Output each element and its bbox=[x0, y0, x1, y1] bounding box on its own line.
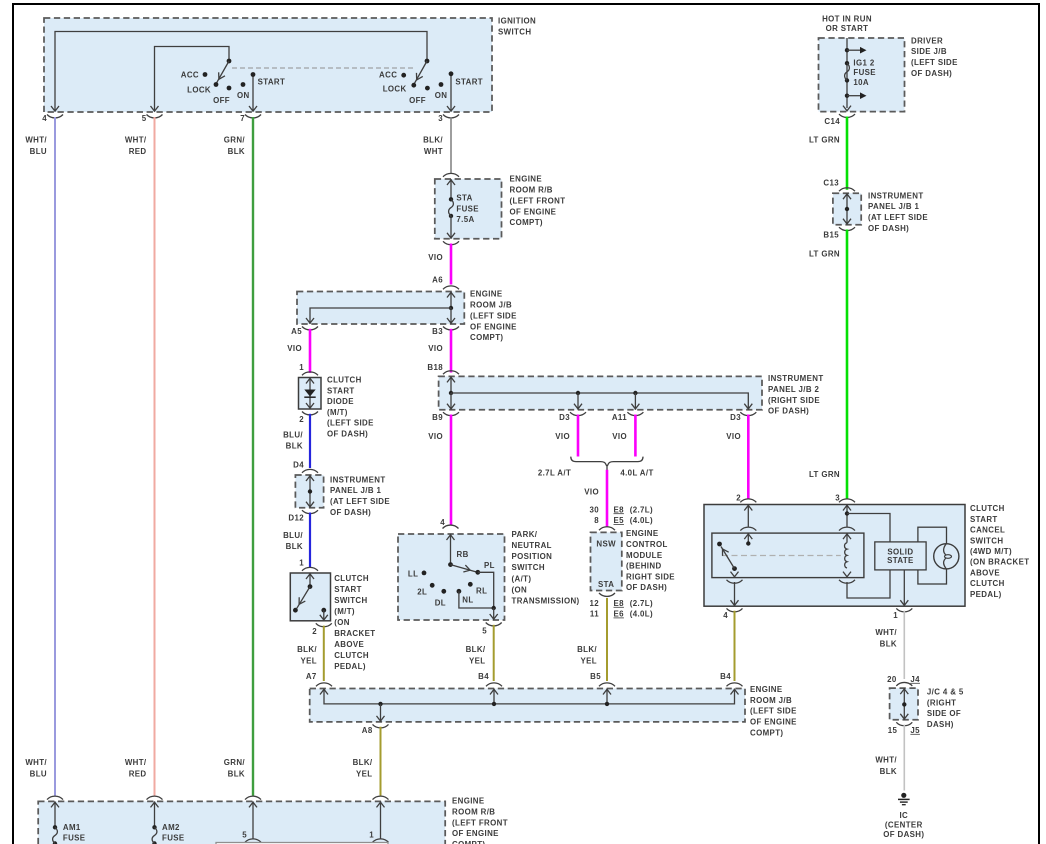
svg-text:11: 11 bbox=[590, 610, 599, 619]
svg-text:OFF: OFF bbox=[409, 96, 426, 105]
svg-text:VIO: VIO bbox=[555, 432, 570, 441]
svg-text:ROOM J/B: ROOM J/B bbox=[750, 696, 792, 705]
svg-text:CLUTCH: CLUTCH bbox=[334, 574, 369, 583]
starter relay box bbox=[216, 843, 388, 844]
svg-text:PANEL J/B 2: PANEL J/B 2 bbox=[768, 385, 819, 394]
svg-text:J/C 4 & 5: J/C 4 & 5 bbox=[927, 687, 964, 696]
svg-text:ON: ON bbox=[435, 91, 448, 100]
instrument panel J/B 1 upper box bbox=[833, 191, 928, 233]
svg-text:START: START bbox=[327, 386, 355, 395]
svg-text:BRACKET: BRACKET bbox=[334, 629, 375, 638]
svg-text:CONTROL: CONTROL bbox=[626, 540, 668, 549]
engine control module box bbox=[591, 527, 675, 592]
svg-text:ENGINE: ENGINE bbox=[510, 175, 543, 184]
svg-text:BLK/: BLK/ bbox=[423, 136, 443, 145]
svg-text:C14: C14 bbox=[824, 117, 840, 126]
driver side J/B box bbox=[819, 36, 958, 111]
wire WHT/BLK cancel switch pin1 to J/C bbox=[875, 608, 912, 679]
svg-text:(LEFT FRONT: (LEFT FRONT bbox=[452, 818, 508, 827]
svg-text:(M/T): (M/T) bbox=[334, 607, 355, 616]
connector B9 bbox=[428, 412, 459, 441]
indicator lamp bbox=[934, 544, 959, 569]
svg-text:FUSE: FUSE bbox=[456, 204, 479, 213]
svg-text:OF DASH): OF DASH) bbox=[883, 830, 924, 839]
svg-text:INSTRUMENT: INSTRUMENT bbox=[868, 191, 924, 200]
connector C14 bbox=[824, 114, 855, 126]
svg-text:MODULE: MODULE bbox=[626, 551, 662, 560]
clutch start cancel switch box bbox=[704, 494, 1029, 607]
svg-text:2: 2 bbox=[736, 494, 741, 503]
svg-text:WHT: WHT bbox=[424, 147, 443, 156]
lamp supply loop bbox=[918, 527, 947, 584]
svg-text:BLU/: BLU/ bbox=[283, 431, 303, 440]
svg-text:FUSE: FUSE bbox=[63, 833, 86, 842]
svg-text:(ON: (ON bbox=[334, 618, 350, 627]
svg-text:B4: B4 bbox=[720, 672, 731, 681]
svg-text:30: 30 bbox=[589, 505, 599, 514]
svg-text:FUSE: FUSE bbox=[162, 833, 185, 842]
svg-text:7: 7 bbox=[240, 114, 245, 123]
wire BLK/YEL P/N switch pin5 to B4 bbox=[466, 623, 502, 682]
svg-text:DL: DL bbox=[435, 598, 446, 607]
svg-text:BLK/: BLK/ bbox=[577, 645, 597, 654]
svg-text:COMPT): COMPT) bbox=[470, 333, 503, 342]
svg-text:VIO: VIO bbox=[428, 344, 443, 353]
cancel switch pin4 internal lead bbox=[727, 572, 743, 607]
svg-text:B4: B4 bbox=[478, 672, 489, 681]
svg-text:3: 3 bbox=[438, 114, 443, 123]
svg-text:OF DASH): OF DASH) bbox=[868, 224, 909, 233]
svg-text:A11: A11 bbox=[612, 413, 627, 422]
wire ignition feed to right pole bbox=[55, 32, 427, 112]
engine room J/B upper box bbox=[297, 286, 517, 342]
svg-text:COMPT): COMPT) bbox=[452, 840, 485, 844]
svg-text:OF DASH): OF DASH) bbox=[626, 583, 667, 592]
svg-text:GRN/: GRN/ bbox=[224, 758, 246, 767]
connector A11 bbox=[612, 412, 644, 441]
svg-text:BLK: BLK bbox=[286, 542, 303, 551]
svg-text:D3: D3 bbox=[730, 413, 741, 422]
wire ignition feed to left pole bbox=[155, 47, 230, 112]
connector B15 bbox=[823, 227, 855, 239]
svg-text:7.5A: 7.5A bbox=[456, 215, 474, 224]
svg-text:OF ENGINE: OF ENGINE bbox=[750, 718, 797, 727]
wire WHT/BLU pin4 to AM1 fuse bbox=[25, 117, 55, 796]
svg-text:YEL: YEL bbox=[581, 657, 598, 666]
connector D3 left bbox=[555, 412, 586, 441]
svg-text:BLK: BLK bbox=[880, 640, 897, 649]
svg-text:BLU: BLU bbox=[30, 770, 47, 779]
mechanical linkage dashed line bbox=[232, 67, 414, 69]
brace 2.7L / 4.0L bbox=[538, 457, 654, 478]
svg-text:NSW: NSW bbox=[596, 540, 616, 549]
wire BLU/BLK D12 to clutch start switch bbox=[283, 510, 318, 568]
svg-text:(AT LEFT SIDE: (AT LEFT SIDE bbox=[330, 497, 390, 506]
svg-text:START: START bbox=[455, 78, 483, 87]
ignition switch box bbox=[44, 17, 536, 113]
wire ignition left START to pin 7 bbox=[252, 75, 254, 112]
wire VIO D3 right to cancel switch pin2 bbox=[747, 415, 750, 500]
svg-text:12: 12 bbox=[589, 599, 599, 608]
svg-text:E6: E6 bbox=[614, 610, 625, 619]
svg-text:LT GRN: LT GRN bbox=[809, 249, 840, 258]
svg-text:YEL: YEL bbox=[469, 657, 486, 666]
STA fuse box engine room R/B bbox=[435, 173, 566, 238]
svg-text:ACC: ACC bbox=[181, 71, 199, 80]
svg-text:CLUTCH: CLUTCH bbox=[970, 504, 1005, 513]
wire BLK/YEL ECM STA to B5 bbox=[577, 598, 607, 681]
svg-text:B15: B15 bbox=[823, 230, 839, 239]
svg-text:(LEFT SIDE: (LEFT SIDE bbox=[911, 58, 958, 67]
svg-text:CLUTCH: CLUTCH bbox=[970, 579, 1005, 588]
clutch start diode D1 bbox=[299, 372, 374, 439]
svg-text:OF ENGINE: OF ENGINE bbox=[452, 829, 499, 838]
svg-text:(CENTER: (CENTER bbox=[885, 821, 923, 830]
svg-text:(LEFT FRONT: (LEFT FRONT bbox=[510, 196, 566, 205]
ignition pin 3 bbox=[438, 106, 459, 123]
svg-text:OF DASH): OF DASH) bbox=[330, 508, 371, 517]
ECM pin labels NSW side bbox=[589, 505, 653, 525]
svg-text:C13: C13 bbox=[823, 178, 839, 187]
wire LT GRN C14 to C13 bbox=[809, 117, 847, 190]
svg-text:PEDAL): PEDAL) bbox=[970, 590, 1002, 599]
clutch start switch M/T bbox=[290, 567, 375, 671]
svg-text:A5: A5 bbox=[291, 327, 302, 336]
wire LT GRN B15 to clutch start cancel switch pin 3 bbox=[809, 230, 847, 500]
svg-text:(2.7L): (2.7L) bbox=[630, 599, 653, 608]
svg-text:B9: B9 bbox=[432, 413, 443, 422]
svg-text:NEUTRAL: NEUTRAL bbox=[512, 541, 552, 550]
svg-text:ENGINE: ENGINE bbox=[470, 290, 503, 299]
svg-text:4: 4 bbox=[440, 518, 445, 527]
svg-text:5: 5 bbox=[142, 114, 147, 123]
ignition pin 5 bbox=[142, 106, 163, 123]
svg-text:20: 20 bbox=[887, 675, 897, 684]
svg-text:YEL: YEL bbox=[301, 657, 318, 666]
R/B pin 5 lead bbox=[242, 801, 261, 842]
svg-text:WHT/: WHT/ bbox=[25, 136, 47, 145]
svg-text:BLU/: BLU/ bbox=[283, 531, 303, 540]
wire BLK/YEL A8 to engine room R/B bbox=[353, 724, 389, 795]
svg-text:VIO: VIO bbox=[287, 344, 302, 353]
svg-text:4.0L A/T: 4.0L A/T bbox=[620, 469, 653, 478]
wire VIO B3 to B18 bbox=[427, 329, 451, 373]
cancel switch pin1 internal lead bbox=[900, 570, 908, 606]
svg-text:YEL: YEL bbox=[356, 770, 373, 779]
svg-text:CLUTCH: CLUTCH bbox=[334, 651, 369, 660]
svg-text:5: 5 bbox=[482, 627, 487, 636]
svg-text:BLU: BLU bbox=[30, 147, 47, 156]
svg-text:OF DASH): OF DASH) bbox=[911, 69, 952, 78]
svg-text:LOCK: LOCK bbox=[187, 86, 211, 95]
svg-text:(RIGHT: (RIGHT bbox=[927, 698, 956, 707]
svg-text:J4: J4 bbox=[910, 675, 920, 684]
svg-text:2L: 2L bbox=[417, 587, 427, 596]
ground IC bbox=[883, 793, 924, 839]
svg-text:OF DASH): OF DASH) bbox=[768, 407, 809, 416]
svg-text:STA: STA bbox=[598, 580, 614, 589]
svg-text:RL: RL bbox=[476, 586, 487, 595]
connector C13 bbox=[823, 178, 855, 191]
svg-text:VIO: VIO bbox=[428, 253, 443, 262]
svg-text:OR START: OR START bbox=[826, 24, 869, 33]
svg-text:PL: PL bbox=[484, 561, 495, 570]
svg-text:E8: E8 bbox=[614, 599, 625, 608]
svg-text:COMPT): COMPT) bbox=[510, 218, 543, 227]
instrument panel J/B 2 box bbox=[439, 371, 824, 416]
svg-text:5: 5 bbox=[242, 831, 247, 840]
instrument panel J/B 1 lower box bbox=[295, 469, 390, 517]
svg-text:(A/T): (A/T) bbox=[512, 574, 532, 583]
svg-text:PANEL J/B 1: PANEL J/B 1 bbox=[868, 202, 919, 211]
svg-text:(4WD M/T): (4WD M/T) bbox=[970, 547, 1012, 556]
AM2 fuse bbox=[151, 801, 185, 844]
svg-text:(2.7L): (2.7L) bbox=[630, 505, 653, 514]
svg-text:CLUTCH: CLUTCH bbox=[327, 376, 362, 385]
wire VIO STA fuse to A6 bbox=[428, 241, 459, 284]
svg-text:SIDE J/B: SIDE J/B bbox=[911, 47, 947, 56]
svg-text:8: 8 bbox=[594, 516, 599, 525]
svg-text:E8: E8 bbox=[614, 505, 625, 514]
connector D3 right bbox=[726, 412, 756, 441]
wire VIO B9 to park/neutral switch pin4 bbox=[450, 415, 453, 526]
svg-text:2: 2 bbox=[312, 627, 317, 636]
wire BLK/YEL clutch start switch pin2 to A7 bbox=[297, 623, 332, 681]
svg-text:COMPT): COMPT) bbox=[750, 729, 783, 738]
svg-text:1: 1 bbox=[369, 831, 374, 840]
svg-text:ENGINE: ENGINE bbox=[452, 797, 485, 806]
svg-text:B3: B3 bbox=[432, 327, 443, 336]
svg-text:STATE: STATE bbox=[887, 556, 914, 565]
junction connector J/C 4 and 5 bbox=[887, 675, 964, 735]
svg-text:ROOM R/B: ROOM R/B bbox=[452, 807, 495, 816]
svg-text:(ON BRACKET: (ON BRACKET bbox=[970, 558, 1029, 567]
wire BLK/YEL cancel switch pin4 to B4 bbox=[720, 608, 742, 681]
svg-text:SWITCH: SWITCH bbox=[512, 563, 545, 572]
svg-text:RED: RED bbox=[129, 770, 147, 779]
svg-text:ON: ON bbox=[237, 91, 250, 100]
svg-text:15: 15 bbox=[888, 726, 898, 735]
ignition pin 7 bbox=[240, 106, 261, 123]
svg-text:4: 4 bbox=[42, 114, 47, 123]
svg-text:BLK/: BLK/ bbox=[297, 645, 317, 654]
svg-text:D3: D3 bbox=[559, 413, 570, 422]
ECM pin labels STA side bbox=[589, 593, 653, 619]
engine room R/B lower box bbox=[38, 796, 508, 844]
svg-text:FUSE: FUSE bbox=[853, 68, 876, 77]
wire BLU/BLK diode pin2 to D4 bbox=[283, 412, 318, 470]
wire ignition right START to pin 3 bbox=[450, 74, 452, 111]
svg-text:4: 4 bbox=[723, 611, 728, 620]
connector B3 bbox=[432, 327, 459, 337]
svg-text:POSITION: POSITION bbox=[512, 552, 553, 561]
svg-text:(ON: (ON bbox=[512, 585, 528, 594]
cancel switch pin2 internal lead bbox=[740, 505, 756, 546]
svg-text:BLK: BLK bbox=[228, 147, 245, 156]
svg-text:PEDAL): PEDAL) bbox=[334, 662, 366, 671]
svg-text:PANEL J/B 1: PANEL J/B 1 bbox=[330, 486, 381, 495]
svg-text:ROOM J/B: ROOM J/B bbox=[470, 301, 512, 310]
svg-text:E5: E5 bbox=[614, 516, 625, 525]
svg-text:WHT/: WHT/ bbox=[875, 756, 897, 765]
svg-text:IGNITION: IGNITION bbox=[498, 17, 536, 26]
svg-text:(LEFT SIDE: (LEFT SIDE bbox=[327, 419, 374, 428]
svg-text:(AT LEFT SIDE: (AT LEFT SIDE bbox=[868, 213, 928, 222]
engine room J/B lower box bbox=[310, 683, 797, 738]
svg-text:START: START bbox=[334, 585, 362, 594]
solid state unit bbox=[875, 542, 926, 570]
ignition right pole switch bbox=[379, 59, 483, 106]
svg-text:TRANSMISSION): TRANSMISSION) bbox=[512, 596, 580, 605]
svg-text:SOLID: SOLID bbox=[887, 547, 913, 556]
svg-text:AM2: AM2 bbox=[162, 823, 180, 832]
svg-text:(BEHIND: (BEHIND bbox=[626, 562, 662, 571]
svg-text:WHT/: WHT/ bbox=[125, 758, 147, 767]
wire GRN/BLK pin7 to engine room R/B bbox=[224, 117, 253, 796]
label HOT IN RUN OR START bbox=[822, 14, 872, 33]
svg-text:BLK/: BLK/ bbox=[353, 758, 373, 767]
svg-text:BLK/: BLK/ bbox=[466, 645, 486, 654]
svg-text:RED: RED bbox=[129, 147, 147, 156]
wire VIO A11 to brace bbox=[634, 415, 637, 457]
svg-text:A6: A6 bbox=[432, 276, 443, 285]
svg-text:OF ENGINE: OF ENGINE bbox=[470, 322, 517, 331]
svg-text:SWITCH: SWITCH bbox=[498, 27, 531, 36]
svg-text:VIO: VIO bbox=[726, 432, 741, 441]
svg-text:ACC: ACC bbox=[379, 71, 397, 80]
wire BLK/WHT pin3 to STA fuse bbox=[423, 117, 451, 173]
wire WHT/RED pin5 to AM2 fuse bbox=[125, 117, 155, 796]
svg-text:START: START bbox=[970, 515, 998, 524]
svg-text:ABOVE: ABOVE bbox=[334, 640, 364, 649]
svg-text:DRIVER: DRIVER bbox=[911, 36, 943, 45]
svg-text:1: 1 bbox=[893, 611, 898, 620]
svg-text:SIDE OF: SIDE OF bbox=[927, 709, 961, 718]
svg-text:VIO: VIO bbox=[584, 488, 599, 497]
svg-text:INSTRUMENT: INSTRUMENT bbox=[330, 475, 386, 484]
svg-text:(LEFT SIDE: (LEFT SIDE bbox=[470, 311, 517, 320]
wire VIO D3 left to brace bbox=[577, 415, 580, 457]
svg-text:LL: LL bbox=[408, 569, 418, 578]
svg-text:A7: A7 bbox=[306, 672, 317, 681]
svg-text:B18: B18 bbox=[427, 363, 443, 372]
svg-text:OF ENGINE: OF ENGINE bbox=[510, 207, 557, 216]
svg-text:ENGINE: ENGINE bbox=[750, 685, 783, 694]
ignition left pole switch bbox=[181, 59, 285, 106]
svg-text:OFF: OFF bbox=[213, 96, 230, 105]
svg-text:DIODE: DIODE bbox=[327, 397, 354, 406]
cancel switch relay coil bbox=[839, 514, 890, 599]
svg-text:STA: STA bbox=[456, 194, 472, 203]
svg-text:D12: D12 bbox=[288, 513, 304, 522]
cancel switch pin3 internal lead bbox=[839, 505, 855, 543]
svg-text:LT GRN: LT GRN bbox=[809, 136, 840, 145]
svg-text:SWITCH: SWITCH bbox=[970, 536, 1003, 545]
svg-text:GRN/: GRN/ bbox=[224, 136, 246, 145]
svg-text:DASH): DASH) bbox=[927, 720, 954, 729]
cancel switch inner contact block bbox=[712, 533, 864, 578]
svg-text:OF DASH): OF DASH) bbox=[327, 430, 368, 439]
svg-text:CANCEL: CANCEL bbox=[970, 526, 1005, 535]
wire VIO A5 to clutch start diode bbox=[287, 329, 310, 373]
AM1 fuse bbox=[51, 801, 85, 844]
svg-text:INSTRUMENT: INSTRUMENT bbox=[768, 374, 824, 383]
ignition pin 4 bbox=[42, 106, 63, 123]
svg-text:(M/T): (M/T) bbox=[327, 408, 348, 417]
svg-text:WHT/: WHT/ bbox=[125, 136, 147, 145]
svg-text:D4: D4 bbox=[293, 461, 304, 470]
svg-text:IC: IC bbox=[899, 811, 908, 820]
IG1 2 fuse 10A bbox=[843, 38, 876, 111]
svg-text:B5: B5 bbox=[590, 672, 601, 681]
svg-text:LT GRN: LT GRN bbox=[809, 470, 840, 479]
svg-text:1: 1 bbox=[299, 558, 304, 567]
svg-text:VIO: VIO bbox=[428, 432, 443, 441]
R/B pin 1 lead bbox=[369, 801, 388, 842]
svg-text:START: START bbox=[258, 78, 286, 87]
svg-text:10A: 10A bbox=[853, 78, 869, 87]
wire WHT/BLK J5 to ground bbox=[875, 725, 904, 791]
svg-text:J5: J5 bbox=[910, 726, 920, 735]
svg-text:BLK: BLK bbox=[228, 770, 245, 779]
svg-text:PARK/: PARK/ bbox=[512, 530, 538, 539]
connector A5 bbox=[291, 327, 318, 337]
svg-text:A8: A8 bbox=[362, 726, 373, 735]
svg-text:ABOVE: ABOVE bbox=[970, 568, 1000, 577]
svg-text:(4.0L): (4.0L) bbox=[630, 610, 653, 619]
svg-text:VIO: VIO bbox=[612, 432, 627, 441]
svg-text:HOT IN RUN: HOT IN RUN bbox=[822, 14, 872, 23]
svg-text:RIGHT SIDE: RIGHT SIDE bbox=[626, 572, 675, 581]
svg-text:ENGINE: ENGINE bbox=[626, 529, 659, 538]
svg-text:(LEFT SIDE: (LEFT SIDE bbox=[750, 707, 797, 716]
svg-text:2: 2 bbox=[299, 415, 304, 424]
svg-text:WHT/: WHT/ bbox=[25, 758, 47, 767]
svg-text:IG1 2: IG1 2 bbox=[853, 58, 874, 67]
svg-text:AM1: AM1 bbox=[63, 823, 81, 832]
svg-text:RB: RB bbox=[457, 550, 469, 559]
svg-text:SWITCH: SWITCH bbox=[334, 596, 367, 605]
svg-text:WHT/: WHT/ bbox=[875, 628, 897, 637]
svg-text:BLK: BLK bbox=[286, 442, 303, 451]
svg-text:2.7L A/T: 2.7L A/T bbox=[538, 469, 571, 478]
svg-text:1: 1 bbox=[299, 363, 304, 372]
svg-text:NL: NL bbox=[462, 595, 473, 604]
svg-text:(4.0L): (4.0L) bbox=[630, 516, 653, 525]
svg-text:(RIGHT SIDE: (RIGHT SIDE bbox=[768, 396, 820, 405]
cancel switch contact bbox=[717, 542, 737, 571]
svg-text:ROOM R/B: ROOM R/B bbox=[510, 186, 553, 195]
park/neutral position switch box bbox=[398, 518, 580, 620]
svg-text:BLK: BLK bbox=[880, 767, 897, 776]
wire VIO brace to ECM NSW bbox=[584, 470, 607, 527]
svg-text:LOCK: LOCK bbox=[383, 85, 407, 94]
